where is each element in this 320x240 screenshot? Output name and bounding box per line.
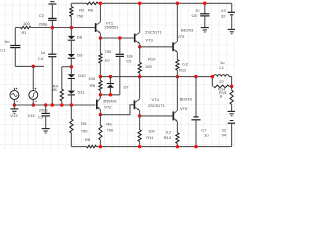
- svg-text:32: 32: [221, 13, 226, 18]
- svg-text:C2: C2: [39, 13, 45, 18]
- svg-text:100: 100: [148, 129, 155, 134]
- source V13: [13, 88, 15, 91]
- svg-text:VT5: VT5: [177, 34, 185, 39]
- wire VAS node: [100, 76, 212, 78]
- svg-text:D8: D8: [77, 34, 83, 39]
- diode D11: [68, 91, 75, 94]
- svg-text:R12: R12: [179, 67, 187, 72]
- resistor R9: [99, 115, 101, 126]
- inductor L1: [212, 76, 213, 78]
- wire VT5 base: [140, 46, 173, 48]
- svg-text:750: 750: [105, 49, 112, 54]
- wire: [70, 59, 72, 74]
- transistor VT1 2N5551: [95, 23, 97, 32]
- node R10 bottom: [138, 75, 142, 79]
- resistor R15: [230, 90, 233, 104]
- diode D8: [70, 28, 72, 36]
- capacitor C2: [48, 17, 56, 19]
- resistor R11: [139, 116, 141, 130]
- svg-text:2N5401: 2N5401: [103, 99, 118, 104]
- svg-text:C4: C4: [38, 56, 44, 61]
- svg-text:D10: D10: [78, 73, 86, 78]
- node VT1 emitter: [99, 36, 103, 40]
- svg-text:C3: C3: [38, 114, 44, 119]
- svg-text:R7: R7: [105, 58, 111, 63]
- svg-text:750: 750: [77, 13, 84, 18]
- svg-text:1u: 1u: [204, 133, 208, 138]
- node R4 tap: [70, 65, 74, 69]
- capacitor C7: [195, 77, 197, 117]
- node D7 top: [109, 75, 113, 79]
- transistor VT3 2SC5171: [134, 34, 136, 43]
- capacitor C4: [51, 28, 53, 55]
- svg-text:VT2: VT2: [104, 104, 112, 109]
- wire: [70, 41, 72, 54]
- node input junction: [32, 65, 36, 69]
- wire bottom rail: [71, 146, 87, 148]
- svg-text:R6: R6: [88, 7, 94, 12]
- svg-text:200p: 200p: [39, 107, 49, 112]
- resistor R10: [139, 47, 141, 63]
- wire emitter rail: [100, 37, 133, 39]
- svg-text:R13: R13: [164, 135, 172, 140]
- node C8 top: [203, 2, 207, 6]
- diode D10: [68, 74, 75, 77]
- wire: [70, 79, 72, 91]
- svg-text:R6: R6: [85, 137, 91, 142]
- transistor VT5 BD243: [172, 42, 174, 51]
- node base chain: [70, 26, 74, 30]
- svg-text:BD243: BD243: [180, 97, 193, 102]
- svg-text:100: 100: [23, 21, 30, 26]
- capacitor C3: [45, 105, 47, 113]
- svg-text:R5: R5: [81, 121, 87, 126]
- transistor VT2 2N5401: [96, 100, 98, 110]
- node C7 tap: [194, 75, 198, 79]
- node C5 top: [118, 36, 122, 40]
- svg-text:BD243: BD243: [181, 28, 194, 33]
- svg-text:VT4: VT4: [152, 97, 160, 102]
- wire VT2 collector node: [100, 94, 119, 96]
- ground (C3): [42, 128, 50, 130]
- source V14: [32, 100, 34, 106]
- svg-text:R1: R1: [22, 30, 28, 35]
- node VT3 collector: [138, 2, 142, 6]
- svg-text:200p: 200p: [39, 21, 49, 26]
- node VT5 collector: [176, 2, 180, 6]
- node C2/C4: [51, 26, 55, 30]
- svg-text:1u: 1u: [195, 7, 199, 12]
- wire: [70, 96, 72, 106]
- wire VT6 base: [140, 115, 173, 117]
- node C3: [44, 103, 48, 107]
- resistor R7: [99, 38, 101, 54]
- resistor R12: [176, 60, 179, 71]
- transistor VT4 2SC5171: [134, 100, 136, 109]
- resistor R6 (bottom, horizontal): [87, 145, 97, 148]
- wire input bottom: [14, 104, 95, 106]
- resistor R5: [70, 105, 72, 119]
- ground (R15): [228, 110, 236, 112]
- node V14: [32, 103, 36, 107]
- ground (V13): [13, 105, 15, 109]
- svg-text:VT3: VT3: [146, 37, 154, 42]
- node output col: [176, 75, 180, 79]
- svg-text:R2: R2: [79, 7, 85, 12]
- svg-text:68: 68: [52, 87, 57, 92]
- svg-text:R8: R8: [90, 83, 96, 88]
- node output: [230, 85, 234, 89]
- resistor R2: [70, 3, 72, 6]
- wire top rail: [71, 2, 87, 4]
- battery V3: [231, 3, 233, 12]
- svg-text:R10: R10: [148, 56, 156, 61]
- node L1 input: [211, 75, 215, 79]
- node R11 bottom: [138, 145, 142, 149]
- node VT4 emitter: [138, 114, 142, 118]
- wire VT4 base link: [100, 105, 133, 115]
- svg-text:22: 22: [219, 79, 224, 84]
- node VT1 collector: [99, 2, 103, 6]
- svg-text:C8: C8: [192, 13, 198, 18]
- svg-text:L1: L1: [220, 65, 225, 70]
- node VT3 emitter: [138, 45, 142, 49]
- svg-text:2N5551: 2N5551: [105, 24, 120, 29]
- svg-text:V14: V14: [28, 113, 36, 118]
- node R8 bottom: [99, 93, 103, 97]
- svg-text:2SC5171: 2SC5171: [145, 30, 162, 35]
- svg-text:750: 750: [81, 128, 88, 133]
- svg-text:100: 100: [145, 64, 152, 69]
- svg-text:0.2: 0.2: [182, 61, 188, 66]
- node chain bottom: [70, 103, 74, 107]
- resistor R1: [15, 27, 20, 29]
- diode D7: [109, 77, 111, 84]
- svg-text:R9: R9: [106, 121, 112, 126]
- node R4 bottom: [60, 103, 64, 107]
- transistor VT6 BD243: [173, 112, 175, 121]
- ground (C8): [201, 27, 209, 29]
- wire V14 stub: [32, 66, 34, 90]
- ground (V3): [228, 28, 236, 30]
- resistor R8: [99, 77, 101, 81]
- node R9 bottom: [99, 145, 103, 149]
- resistor R13: [176, 133, 179, 144]
- wire input node: [15, 65, 44, 67]
- svg-text:0.2: 0.2: [166, 129, 172, 134]
- svg-text:100: 100: [88, 76, 95, 81]
- capacitor C8: [204, 3, 206, 13]
- svg-text:R11: R11: [146, 135, 154, 140]
- node D7 bottom: [109, 93, 113, 97]
- resistor R14: [211, 77, 213, 87]
- node R7/R8: [99, 75, 103, 79]
- node C7 bottom: [194, 145, 198, 149]
- capacitor C1: [14, 28, 16, 46]
- svg-text:C5: C5: [126, 58, 132, 63]
- ground (top of C2): [48, 3, 56, 5]
- node V13: [13, 103, 17, 107]
- svg-text:750: 750: [106, 128, 113, 133]
- svg-text:V4: V4: [222, 133, 228, 138]
- svg-text:VT6: VT6: [180, 106, 188, 111]
- node R13 bottom: [176, 145, 180, 149]
- svg-text:D7: D7: [124, 84, 130, 89]
- diode D9: [68, 54, 75, 57]
- svg-text:V13: V13: [10, 113, 18, 118]
- battery V4: [230, 120, 234, 122]
- svg-text:D11: D11: [78, 90, 86, 95]
- svg-text:1m: 1m: [4, 39, 10, 44]
- wire base VT1: [31, 27, 95, 29]
- svg-text:2SC5171: 2SC5171: [148, 103, 165, 108]
- node C4 bottom: [51, 103, 55, 107]
- node VT2 emitter: [99, 113, 103, 117]
- svg-text:C1: C1: [0, 47, 6, 52]
- resistor R4: [61, 67, 63, 90]
- resistor R6 (top, horizontal on rail): [87, 2, 98, 5]
- wire R4 branch: [62, 66, 72, 68]
- svg-text:1u: 1u: [41, 50, 45, 55]
- capacitor C5: [119, 38, 121, 54]
- svg-text:D9: D9: [77, 52, 83, 57]
